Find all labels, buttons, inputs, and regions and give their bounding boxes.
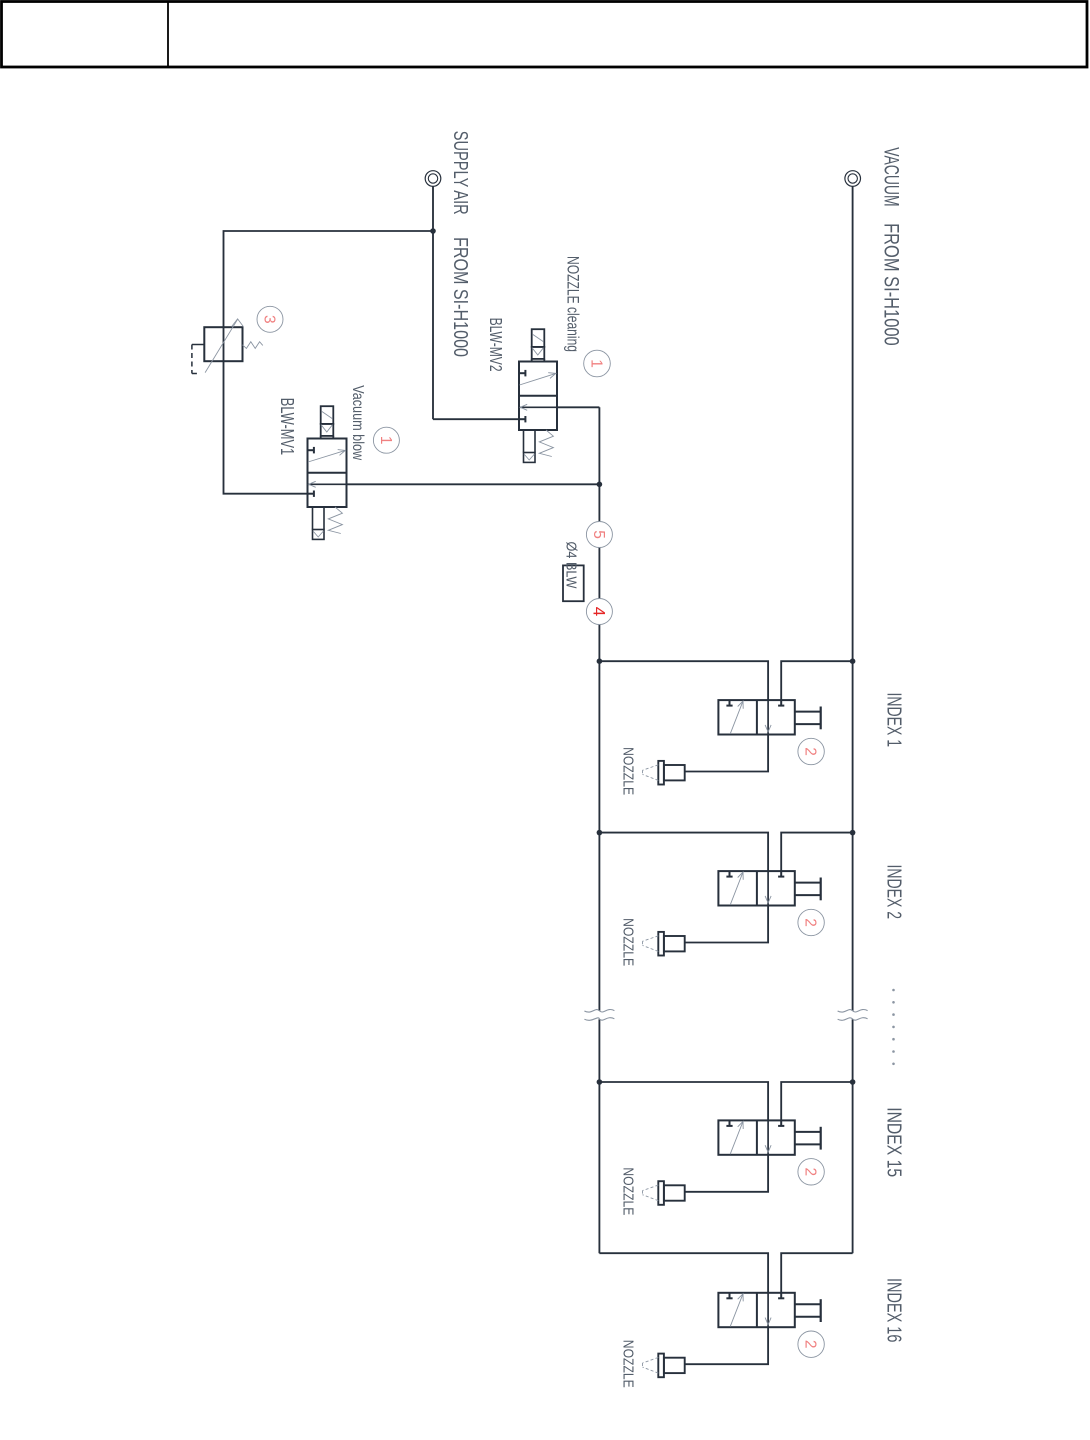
break symbol blow header xyxy=(584,1009,614,1020)
svg-text:INDEX 1: INDEX 1 xyxy=(883,693,906,748)
node vacuum tap junction INDEX 2 xyxy=(850,830,856,836)
wire INDEX 16 valve to nozzle xyxy=(685,1327,768,1364)
supply air terminal xyxy=(425,171,441,187)
svg-text:2: 2 xyxy=(802,918,819,927)
valve INDEX 2 nozzle select xyxy=(718,871,820,905)
svg-text:NOZZLE cleaning: NOZZLE cleaning xyxy=(563,256,581,352)
nozzle INDEX 2 xyxy=(643,932,685,956)
svg-text:NOZZLE: NOZZLE xyxy=(620,747,637,795)
node supply branch junction xyxy=(430,228,436,234)
svg-text:3: 3 xyxy=(261,315,278,324)
wire blow tap INDEX 15 xyxy=(599,1082,768,1120)
valve INDEX 15 nozzle select xyxy=(718,1120,820,1154)
label box D4 BLW xyxy=(563,542,584,602)
nozzle INDEX 1 xyxy=(643,761,685,785)
wire blow tap INDEX 16 xyxy=(599,1253,768,1293)
label VACUUM FROM SI-H1000 xyxy=(880,147,903,346)
label NOZZLE INDEX 16 xyxy=(620,1340,637,1388)
wire BLW-MV1 output to blow header xyxy=(347,483,600,485)
svg-text:NOZZLE: NOZZLE xyxy=(620,918,637,966)
svg-text:1: 1 xyxy=(588,359,605,368)
wire vacuum header xyxy=(852,186,854,1253)
svg-text:NOZZLE: NOZZLE xyxy=(620,1340,637,1388)
svg-text:INDEX 16: INDEX 16 xyxy=(883,1278,906,1342)
callout 3 regulator xyxy=(257,306,283,332)
wire blow header xyxy=(598,407,600,1253)
label INDEX 15 xyxy=(883,1107,906,1177)
callout 5 blow line xyxy=(586,522,612,548)
svg-text:INDEX 2: INDEX 2 xyxy=(883,865,906,920)
svg-text:FROM SI-H1000: FROM SI-H1000 xyxy=(880,223,903,346)
valve BLW-MV1 xyxy=(308,406,347,539)
wire vacuum tap INDEX 2 xyxy=(781,833,852,872)
node vacuum tap junction INDEX 1 xyxy=(850,658,856,664)
label NOZZLE INDEX 2 xyxy=(620,918,637,966)
break symbol vacuum header xyxy=(838,1009,868,1020)
svg-text:5: 5 xyxy=(590,530,607,539)
svg-text:BLW-MV1: BLW-MV1 xyxy=(277,398,297,455)
pressure regulator xyxy=(192,319,263,374)
svg-text:2: 2 xyxy=(802,747,819,756)
label INDEX 1 xyxy=(883,693,906,748)
wire INDEX 2 valve to nozzle xyxy=(685,906,768,943)
svg-text:SUPPLY AIR: SUPPLY AIR xyxy=(449,131,471,215)
label NOZZLE INDEX 15 xyxy=(620,1167,637,1215)
callout 2 INDEX 2 xyxy=(798,909,824,935)
svg-text:Vacuum blow: Vacuum blow xyxy=(349,385,366,461)
node blow tap junction INDEX 2 xyxy=(597,830,603,836)
ellipsis dots between index rows xyxy=(892,989,895,1065)
label SUPPLY AIR FROM SI-H1000 xyxy=(449,131,471,357)
label NOZZLE cleaning xyxy=(563,256,581,352)
node vacuum tap junction INDEX 15 xyxy=(850,1079,856,1085)
svg-text:VACUUM: VACUUM xyxy=(880,147,903,206)
valve INDEX 16 nozzle select xyxy=(718,1293,820,1327)
svg-text:BLW-MV2: BLW-MV2 xyxy=(486,318,506,372)
wire supply to valve BLW-MV2 port 1 xyxy=(433,418,519,420)
svg-text:Ø4 BLW: Ø4 BLW xyxy=(563,542,580,590)
svg-text:2: 2 xyxy=(802,1340,819,1349)
callout 2 INDEX 16 xyxy=(798,1331,824,1357)
wire vacuum tap INDEX 1 xyxy=(781,661,852,700)
wire vacuum tap INDEX 15 xyxy=(781,1082,852,1120)
wire supply main xyxy=(432,186,434,419)
valve BLW-MV2 xyxy=(519,329,557,462)
node blow tap junction INDEX 15 xyxy=(597,1079,603,1085)
node blow header junction xyxy=(597,482,603,488)
label INDEX 16 xyxy=(883,1278,906,1342)
node blow tap junction INDEX 1 xyxy=(597,658,603,664)
header table divider xyxy=(167,2,169,68)
svg-text:INDEX 15: INDEX 15 xyxy=(883,1107,906,1177)
nozzle INDEX 16 xyxy=(643,1354,685,1378)
nozzle INDEX 15 xyxy=(643,1181,685,1205)
svg-text:FROM SI-H1000: FROM SI-H1000 xyxy=(449,237,471,357)
callout 2 INDEX 1 xyxy=(798,738,824,764)
label BLW-MV2 xyxy=(486,318,506,372)
callout 1 valve BLW-MV1 xyxy=(373,427,399,453)
svg-text:1: 1 xyxy=(377,436,394,445)
wire blow tap INDEX 1 xyxy=(599,661,768,700)
svg-text:4: 4 xyxy=(589,607,608,616)
callout 1 valve BLW-MV2 xyxy=(584,350,611,377)
wire supply branch through regulator to BLW-MV1 port 1 xyxy=(224,231,434,494)
label BLW-MV1 xyxy=(277,398,297,455)
callout 2 INDEX 15 xyxy=(798,1159,824,1185)
wire INDEX 1 valve to nozzle xyxy=(685,735,768,772)
svg-text:NOZZLE: NOZZLE xyxy=(620,1167,637,1215)
label INDEX 2 xyxy=(883,865,906,920)
svg-text:2: 2 xyxy=(802,1167,819,1176)
wire BLW-MV2 output to blow header xyxy=(557,406,599,408)
wire INDEX 15 valve to nozzle xyxy=(685,1155,768,1192)
wire blow tap INDEX 2 xyxy=(599,833,768,872)
label NOZZLE INDEX 1 xyxy=(620,747,637,795)
vacuum terminal xyxy=(845,171,861,187)
label Vacuum blow xyxy=(349,385,366,461)
header table frame xyxy=(2,2,1088,68)
wire vacuum tap INDEX 16 xyxy=(781,1253,852,1293)
valve INDEX 1 nozzle select xyxy=(718,700,820,734)
callout 4 blow line xyxy=(586,599,612,625)
